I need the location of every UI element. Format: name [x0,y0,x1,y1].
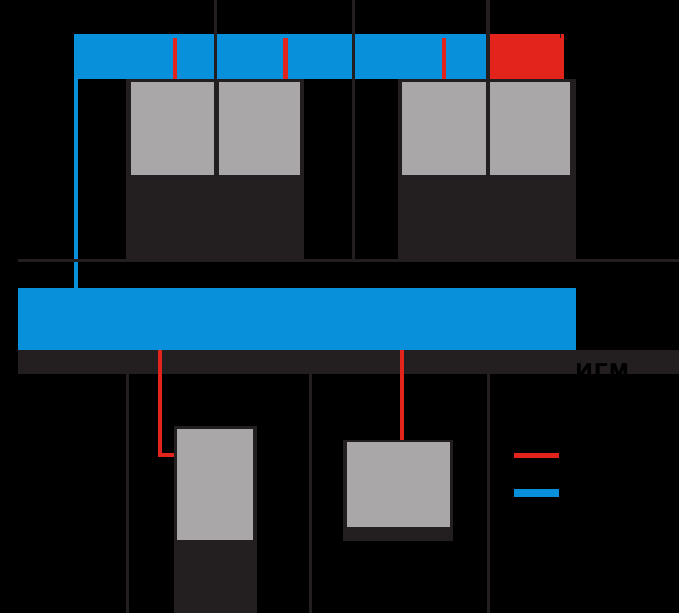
box F dark body [343,440,453,542]
red drop line 2 [400,350,404,440]
box E dark body [174,426,257,613]
gray box C [402,82,486,175]
red tick 2 [283,38,288,79]
legend blue line [514,489,559,497]
top bar red segment [490,34,565,79]
gray box E [177,429,253,541]
red L-line horizontal [158,453,178,458]
gray box F [347,442,450,527]
gray box A [131,82,216,175]
dark strip under big bar [18,350,679,374]
lower grid line L2 [309,374,312,613]
big blue bar [18,288,576,350]
red tick 3 [442,38,447,79]
left box group dark body [126,79,304,259]
red tick 1 [173,38,178,79]
dark tick inside red segment [560,34,562,38]
top bar blue segment [74,34,486,79]
legend red line [514,453,559,458]
red L-line vertical [158,350,163,457]
blue drop line [74,79,78,288]
axis line [18,259,679,262]
lower grid line L1 [126,374,129,613]
right box group dark body [398,79,576,259]
lower grid line L3 [487,374,490,613]
label ИГМ [576,361,631,383]
grid line V1 [214,0,217,262]
gray box B [219,82,300,175]
grid line V2 [352,0,355,262]
grid line V3 [486,0,490,262]
gray box D [490,82,570,175]
